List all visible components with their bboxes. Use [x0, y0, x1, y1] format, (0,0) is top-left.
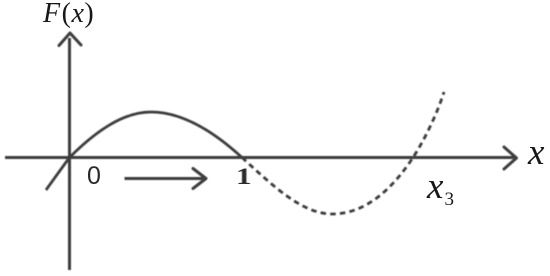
x-axis arrowhead	[504, 147, 517, 169]
label F(x)	[43, 0, 94, 30]
label 0	[87, 162, 101, 191]
curve solid part	[46, 112, 242, 190]
label x3	[427, 165, 454, 211]
interval arrow	[125, 177, 204, 180]
curve dashed part	[242, 92, 444, 214]
interval arrowhead	[193, 169, 206, 189]
y-axis	[68, 38, 71, 270]
label 1	[236, 164, 252, 190]
x-axis	[5, 156, 514, 159]
y-axis arrowhead	[59, 33, 81, 46]
label x axis	[528, 131, 544, 174]
